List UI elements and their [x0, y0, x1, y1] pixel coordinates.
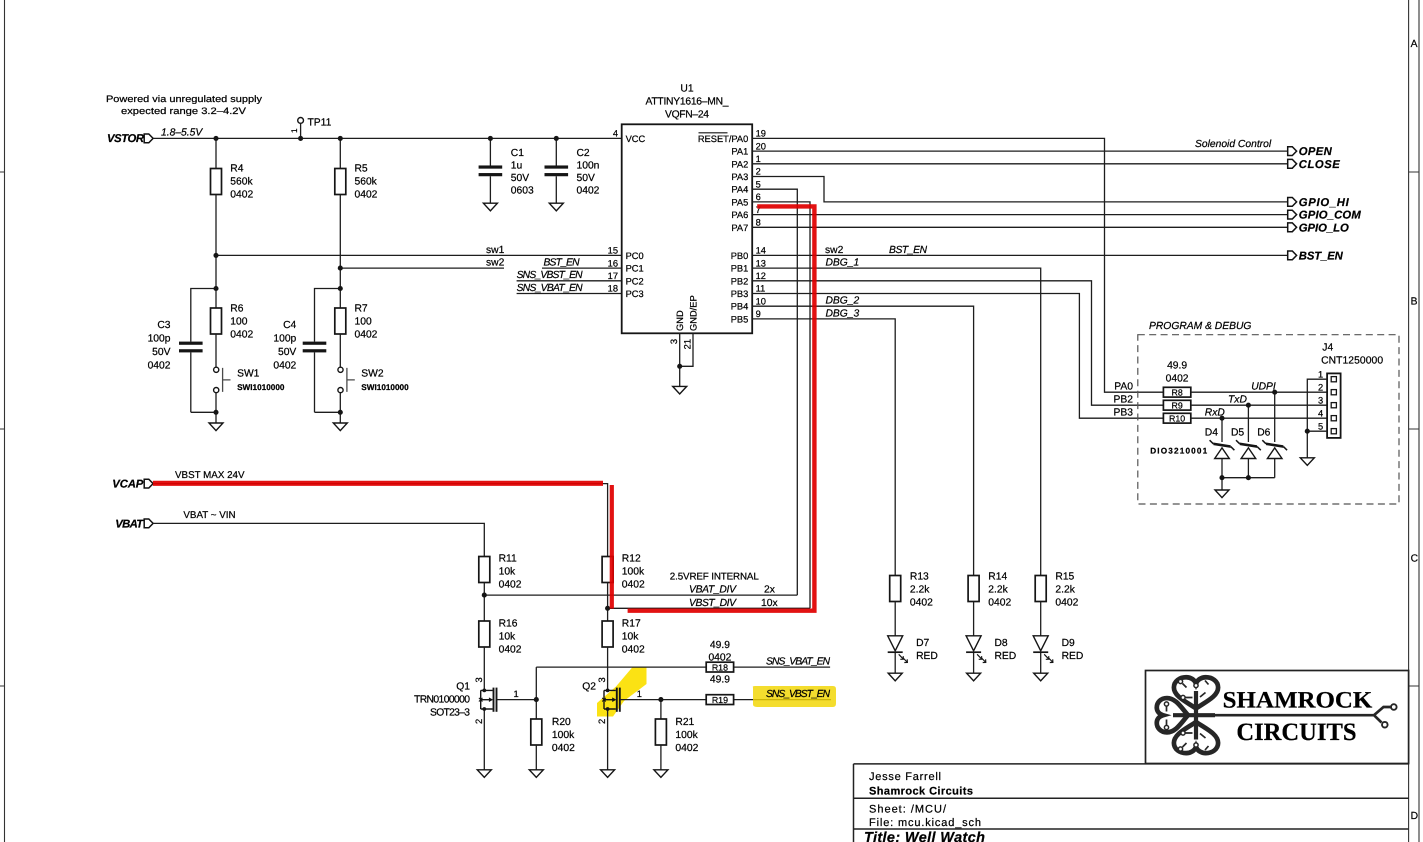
resistor R20	[531, 717, 575, 770]
svg-text:1u: 1u	[511, 161, 523, 172]
resistor R5	[335, 164, 378, 201]
ground under C2	[549, 203, 563, 211]
ground under U1	[673, 386, 687, 394]
svg-text:4: 4	[613, 129, 618, 139]
MCU U1 ground pins 3 and 21	[669, 295, 699, 386]
test point TP11	[290, 118, 332, 139]
resistor R11	[479, 554, 522, 591]
logo trace line with via pads	[1215, 704, 1397, 727]
svg-text:0603: 0603	[511, 186, 534, 197]
svg-text:ATTINY1616–MN_: ATTINY1616–MN_	[646, 97, 729, 108]
svg-text:VCC: VCC	[626, 134, 646, 144]
hierarchical port GPIO_HI	[1288, 197, 1350, 209]
svg-text:R13: R13	[910, 572, 929, 583]
svg-text:PA3: PA3	[731, 172, 748, 182]
svg-text:PB4: PB4	[731, 302, 749, 312]
svg-text:BST_EN: BST_EN	[1299, 250, 1344, 262]
svg-text:DBG_2: DBG_2	[826, 296, 860, 307]
svg-text:PB2: PB2	[1114, 395, 1134, 406]
svg-text:UDPI: UDPI	[1251, 382, 1276, 393]
svg-text:SNS_VBST_EN: SNS_VBST_EN	[517, 270, 584, 281]
svg-text:0402: 0402	[148, 361, 171, 372]
capacitor C3	[148, 289, 216, 413]
wire UPDI net with label	[1191, 382, 1327, 393]
svg-text:0402: 0402	[910, 598, 933, 609]
svg-text:VCAP: VCAP	[112, 479, 143, 491]
ground under SW2	[333, 423, 347, 431]
svg-text:VBST_DIV: VBST_DIV	[689, 598, 737, 609]
ground under Q2	[601, 770, 615, 778]
svg-text:D7: D7	[916, 638, 929, 649]
wire VBST_DIV vertical from pin 6	[752, 202, 810, 608]
svg-text:100k: 100k	[552, 730, 575, 741]
svg-text:560k: 560k	[355, 177, 378, 188]
svg-text:CIRCUITS: CIRCUITS	[1236, 719, 1356, 746]
ground under Q1	[477, 770, 491, 778]
svg-text:R18: R18	[712, 663, 728, 673]
resistor R7	[335, 304, 378, 341]
wire R12 to R17 through VBST_DIV node	[607, 583, 609, 622]
TVS diode D4	[1205, 428, 1235, 459]
wire net sw1	[216, 245, 622, 256]
svg-text:VSTOR: VSTOR	[107, 133, 145, 145]
svg-text:BST_EN: BST_EN	[544, 258, 581, 269]
svg-text:2: 2	[756, 167, 761, 177]
svg-text:10k: 10k	[622, 632, 639, 643]
hierarchical port GPIO_LO	[1288, 222, 1349, 234]
svg-text:PB5: PB5	[731, 314, 749, 324]
svg-text:13: 13	[756, 258, 766, 268]
wire R11 to R16 through VBAT_DIV node	[483, 583, 485, 622]
svg-text:SHAMROCK: SHAMROCK	[1223, 688, 1373, 714]
svg-text:10x: 10x	[761, 598, 778, 609]
wire junction dots	[213, 136, 1309, 702]
MCU U1 right-side pin names and numbers	[698, 129, 766, 325]
wire GPIO_LO from pin 8	[752, 226, 1287, 228]
switch SW2	[338, 334, 409, 423]
svg-text:2: 2	[1318, 382, 1323, 392]
wire R4 column	[215, 138, 217, 308]
svg-text:8: 8	[756, 218, 761, 228]
svg-text:1: 1	[756, 154, 761, 164]
svg-text:R5: R5	[355, 164, 368, 175]
hierarchical port VSTOR	[107, 133, 153, 145]
svg-text:VBST MAX 24V: VBST MAX 24V	[175, 470, 245, 481]
svg-text:SNS_VBST_EN: SNS_VBST_EN	[766, 689, 831, 700]
svg-text:GPIO_HI: GPIO_HI	[1299, 197, 1350, 209]
svg-text:3: 3	[1318, 395, 1323, 405]
wire R5 column	[339, 138, 341, 308]
wire diode ground rail	[1222, 478, 1275, 490]
hierarchical port VCAP	[112, 479, 153, 491]
svg-text:PB1: PB1	[731, 264, 749, 274]
resistor R8	[1163, 361, 1190, 398]
svg-text:2.2k: 2.2k	[988, 585, 1008, 596]
svg-text:File: mcu.kicad_sch: File: mcu.kicad_sch	[869, 817, 981, 829]
svg-text:Q2: Q2	[582, 682, 596, 693]
svg-text:0402: 0402	[499, 645, 522, 656]
svg-text:12: 12	[756, 271, 766, 281]
svg-text:49.9: 49.9	[710, 640, 730, 651]
wire GPIO_COM from pin 7	[752, 214, 1287, 216]
connector J4	[1318, 343, 1383, 438]
wire net BST_EN to PC1	[542, 258, 622, 269]
svg-text:D4: D4	[1205, 428, 1218, 439]
svg-text:0402: 0402	[230, 330, 253, 341]
svg-text:2x: 2x	[764, 585, 776, 596]
svg-text:100p: 100p	[273, 334, 296, 345]
svg-text:0402: 0402	[1055, 598, 1078, 609]
svg-text:49.9: 49.9	[710, 675, 730, 686]
wire D4 column from RxD	[1221, 418, 1223, 478]
svg-text:100n: 100n	[577, 161, 600, 172]
switch SW1	[214, 334, 285, 423]
svg-text:R21: R21	[675, 717, 694, 728]
wire DBG_1 from pin 13	[752, 258, 1040, 576]
wire SNS_VBST_EN row	[734, 699, 831, 701]
svg-text:PA7: PA7	[731, 223, 748, 233]
svg-text:0402: 0402	[622, 645, 645, 656]
svg-text:PC0: PC0	[626, 251, 644, 261]
TVS diode D6	[1257, 428, 1287, 459]
svg-text:10k: 10k	[499, 567, 516, 578]
svg-text:0402: 0402	[499, 580, 522, 591]
svg-text:PB0: PB0	[731, 251, 749, 261]
svg-text:3: 3	[597, 677, 607, 682]
svg-text:DBG_1: DBG_1	[826, 258, 860, 269]
svg-text:0402: 0402	[1166, 374, 1189, 385]
red annotation VCAP horizontal	[153, 481, 603, 486]
svg-text:Title: Well Watch: Title: Well Watch	[864, 830, 985, 842]
resistor R13	[890, 572, 933, 609]
dashed box PROGRAM & DEBUG	[1138, 321, 1399, 504]
svg-text:0402: 0402	[577, 186, 600, 197]
svg-text:2: 2	[597, 719, 607, 724]
svg-text:R16: R16	[499, 619, 518, 630]
svg-text:sw1: sw1	[486, 245, 505, 256]
svg-text:sw2: sw2	[825, 245, 844, 256]
svg-text:D: D	[1411, 811, 1418, 822]
svg-text:49.9: 49.9	[1167, 361, 1187, 372]
svg-text:R4: R4	[230, 164, 243, 175]
svg-text:R20: R20	[552, 717, 571, 728]
svg-text:17: 17	[608, 271, 618, 281]
svg-text:21: 21	[682, 339, 692, 349]
svg-text:C: C	[1411, 554, 1419, 565]
svg-text:GND/EP: GND/EP	[689, 295, 699, 331]
svg-text:CNT1250000: CNT1250000	[1321, 356, 1383, 367]
svg-text:2.5VREF INTERNAL: 2.5VREF INTERNAL	[670, 572, 760, 583]
red annotation VBST_DIV to PA5 path	[628, 206, 815, 610]
svg-text:0402: 0402	[273, 361, 296, 372]
svg-text:expected range 3.2–4.2V: expected range 3.2–4.2V	[121, 105, 247, 116]
svg-text:PA4: PA4	[731, 185, 748, 195]
svg-text:SNS_VBAT_EN: SNS_VBAT_EN	[766, 657, 831, 668]
svg-text:Shamrock Circuits: Shamrock Circuits	[869, 785, 973, 797]
svg-text:R19: R19	[712, 695, 728, 705]
svg-text:Solenoid Control: Solenoid Control	[1195, 139, 1272, 150]
svg-text:D5: D5	[1231, 428, 1244, 439]
yellow highlight over Q2	[597, 667, 647, 717]
svg-text:R9: R9	[1171, 401, 1182, 411]
svg-text:C3: C3	[157, 320, 170, 331]
title block lines	[854, 764, 1409, 842]
svg-text:VBAT: VBAT	[115, 518, 144, 530]
svg-text:R7: R7	[355, 304, 368, 315]
wire PA0/UPDI from pin 19 down to debug	[752, 138, 1163, 392]
ground under D8	[967, 673, 981, 681]
svg-text:1: 1	[1318, 369, 1323, 379]
wire net SNS_VBAT_EN to PC3	[517, 283, 622, 294]
svg-text:9: 9	[756, 309, 761, 319]
svg-text:PB2: PB2	[731, 276, 749, 286]
wire OPEN from pin 20	[752, 150, 1287, 152]
wire CLOSE from pin 1	[752, 163, 1287, 165]
ground under R20	[529, 770, 543, 778]
ground under J4	[1300, 458, 1314, 466]
svg-text:5: 5	[1318, 421, 1323, 431]
red annotation vertical beside R12	[610, 485, 614, 609]
svg-text:R15: R15	[1055, 572, 1074, 583]
wire Q2 gate node	[620, 700, 706, 719]
svg-text:2: 2	[474, 719, 484, 724]
svg-text:BST_EN: BST_EN	[889, 245, 928, 256]
resistor R4	[211, 164, 254, 201]
wire TxD net with label	[1191, 395, 1327, 406]
svg-text:0402: 0402	[708, 653, 731, 664]
hierarchical port BST_EN	[1288, 250, 1344, 262]
svg-text:PROGRAM & DEBUG: PROGRAM & DEBUG	[1149, 321, 1251, 332]
ground under D9	[1034, 673, 1048, 681]
svg-text:PA0: PA0	[1114, 382, 1133, 393]
hierarchical port VBAT	[115, 518, 153, 530]
wire PB3 from pin 11 to debug	[752, 294, 1163, 419]
yellow highlight over SNS_VBST_EN label	[753, 686, 836, 707]
svg-text:2.2k: 2.2k	[1055, 585, 1075, 596]
svg-text:PC2: PC2	[626, 276, 644, 286]
svg-text:1: 1	[290, 128, 299, 133]
svg-text:1: 1	[514, 689, 519, 699]
svg-text:19: 19	[756, 129, 766, 139]
svg-text:R6: R6	[230, 304, 243, 315]
svg-text:16: 16	[608, 258, 618, 268]
logo box border	[1146, 671, 1409, 764]
svg-text:10k: 10k	[499, 632, 516, 643]
svg-text:PB3: PB3	[731, 289, 749, 299]
wire Q1 gate node	[497, 667, 537, 719]
svg-text:4: 4	[1318, 408, 1323, 418]
hierarchical port CLOSE	[1288, 159, 1341, 171]
svg-text:1.8–5.5V: 1.8–5.5V	[161, 127, 203, 138]
wire net VBAT_DIV	[484, 585, 797, 596]
resistor R6	[211, 304, 254, 341]
wire J4 pin1 to pin5 ground	[1307, 379, 1327, 458]
svg-text:GPIO_COM: GPIO_COM	[1299, 210, 1362, 222]
TVS diode D5	[1231, 428, 1261, 459]
ground under SW1	[209, 423, 223, 431]
svg-text:R12: R12	[622, 554, 641, 565]
resistor R18	[706, 640, 733, 673]
svg-text:50V: 50V	[152, 347, 170, 358]
svg-text:6: 6	[756, 192, 761, 202]
capacitor C1	[479, 138, 534, 203]
svg-text:RED: RED	[916, 651, 938, 662]
wire net SNS_VBST_EN to PC2	[517, 270, 622, 281]
svg-text:PA1: PA1	[731, 147, 748, 157]
svg-text:VBAT_DIV: VBAT_DIV	[689, 585, 737, 596]
svg-text:14: 14	[756, 246, 766, 256]
LED D8	[966, 602, 1016, 674]
svg-text:50V: 50V	[278, 347, 296, 358]
svg-text:SW1: SW1	[237, 369, 260, 380]
svg-text:sw2: sw2	[486, 258, 505, 269]
wire PB2 from pin 12 to debug	[752, 281, 1163, 405]
svg-text:CLOSE: CLOSE	[1299, 159, 1340, 171]
svg-text:0402: 0402	[355, 190, 378, 201]
wire GPIO_HI from pin 2	[752, 177, 1287, 202]
svg-text:D6: D6	[1257, 428, 1270, 439]
svg-text:TxD: TxD	[1228, 395, 1247, 406]
svg-text:D9: D9	[1062, 638, 1075, 649]
svg-text:D8: D8	[995, 638, 1008, 649]
svg-text:PB3: PB3	[1114, 408, 1134, 419]
svg-text:VBAT ~ VIN: VBAT ~ VIN	[183, 510, 235, 521]
svg-text:PC1: PC1	[626, 264, 644, 274]
wire net sw2 stub	[340, 258, 504, 269]
ground under R21	[654, 770, 668, 778]
svg-text:B: B	[1411, 297, 1418, 308]
capacitor C2	[545, 138, 600, 203]
wire net VBST_DIV	[608, 598, 810, 609]
resistor R12	[602, 554, 645, 591]
wire D6 column from UPDI	[1274, 392, 1276, 478]
svg-text:Sheet: /MCU/: Sheet: /MCU/	[869, 804, 947, 816]
svg-text:RED: RED	[995, 651, 1017, 662]
svg-text:Powered via unregulated supply: Powered via unregulated supply	[106, 93, 262, 104]
svg-text:11: 11	[756, 284, 766, 294]
svg-text:SW2: SW2	[361, 369, 384, 380]
LED D7	[888, 602, 938, 674]
resistor R9	[1163, 400, 1190, 410]
LED D9	[1033, 602, 1083, 674]
svg-text:0402: 0402	[552, 743, 575, 754]
svg-text:C4: C4	[283, 320, 296, 331]
svg-text:20: 20	[756, 141, 766, 151]
wire BST_EN from pin 14	[752, 245, 1287, 256]
svg-text:560k: 560k	[230, 177, 253, 188]
MCU U1 left-side pin names and numbers	[608, 129, 646, 299]
svg-text:DIO3210001: DIO3210001	[1150, 447, 1207, 456]
MCU U1 ATTINY1616 body	[622, 84, 753, 334]
svg-text:3: 3	[669, 339, 679, 344]
svg-text:C2: C2	[577, 148, 590, 159]
resistor R17	[602, 619, 645, 656]
svg-text:C1: C1	[511, 148, 524, 159]
svg-text:0402: 0402	[988, 598, 1011, 609]
svg-text:R14: R14	[988, 572, 1007, 583]
wire VSTOR rail	[153, 137, 622, 139]
svg-text:100: 100	[230, 317, 247, 328]
transistor Q2	[582, 647, 642, 770]
ground under diode rail	[1215, 490, 1229, 498]
wire VCAP to R12	[153, 484, 608, 557]
svg-text:GPIO_LO: GPIO_LO	[1299, 222, 1349, 234]
note: powered via unregulated supply	[106, 93, 262, 116]
wire VBAT to R11	[153, 523, 484, 556]
svg-text:50V: 50V	[511, 173, 529, 184]
svg-text:RED: RED	[1062, 651, 1084, 662]
svg-text:U1: U1	[680, 84, 693, 95]
ground under C1	[483, 203, 497, 211]
svg-text:Q1: Q1	[456, 682, 470, 693]
resistor R10	[1163, 413, 1190, 423]
resistor R21	[655, 717, 698, 770]
svg-text:SNS_VBAT_EN: SNS_VBAT_EN	[517, 283, 584, 294]
svg-text:R17: R17	[622, 619, 641, 630]
svg-text:R11: R11	[499, 554, 517, 565]
resistor R15	[1035, 572, 1078, 609]
wire DBG_2 from pin 10	[752, 296, 973, 576]
wire RxD net with label	[1191, 408, 1327, 419]
svg-text:A: A	[1411, 39, 1418, 50]
svg-text:0402: 0402	[230, 190, 253, 201]
svg-text:R8: R8	[1171, 388, 1182, 398]
svg-text:Jesse Farrell: Jesse Farrell	[869, 771, 941, 783]
svg-text:OPEN: OPEN	[1299, 146, 1333, 158]
svg-text:PA6: PA6	[731, 210, 748, 220]
svg-text:100k: 100k	[675, 730, 698, 741]
svg-text:R10: R10	[1169, 414, 1185, 424]
svg-text:PA5: PA5	[731, 197, 748, 207]
svg-text:RESET/PA0: RESET/PA0	[698, 134, 748, 144]
svg-text:TP11: TP11	[308, 118, 332, 129]
sheet frame left border line	[0, 0, 5, 842]
svg-text:SWI1010000: SWI1010000	[361, 383, 409, 392]
resistor R16	[479, 619, 522, 656]
svg-text:0402: 0402	[622, 580, 645, 591]
svg-text:50V: 50V	[577, 173, 595, 184]
logo shamrock symbol	[1157, 677, 1218, 753]
svg-text:PA2: PA2	[731, 159, 748, 169]
svg-text:1: 1	[637, 689, 642, 699]
svg-text:100k: 100k	[622, 567, 645, 578]
hierarchical port GPIO_COM	[1288, 210, 1362, 222]
svg-text:PC3: PC3	[626, 289, 644, 299]
svg-text:GND: GND	[675, 310, 685, 331]
wire SNS_VBAT_EN row	[536, 666, 830, 668]
svg-text:3: 3	[474, 677, 484, 682]
svg-text:100p: 100p	[148, 334, 171, 345]
resistor R14	[968, 572, 1011, 609]
svg-text:SOT23–3: SOT23–3	[430, 708, 470, 719]
svg-text:SWI1010000: SWI1010000	[237, 383, 285, 392]
sheet frame right border lines with row ticks	[1409, 0, 1419, 842]
svg-text:VQFN–24: VQFN–24	[665, 110, 709, 121]
svg-text:DBG_3: DBG_3	[826, 308, 860, 319]
svg-text:0402: 0402	[675, 743, 698, 754]
svg-text:0402: 0402	[355, 330, 378, 341]
svg-text:18: 18	[608, 284, 618, 294]
svg-text:J4: J4	[1322, 343, 1333, 354]
svg-text:100: 100	[355, 317, 372, 328]
svg-text:10: 10	[756, 296, 766, 306]
transistor Q1	[414, 647, 519, 770]
wire VBAT_DIV vertical from pin 5	[752, 189, 797, 595]
wire D5 column from TxD	[1247, 405, 1249, 478]
resistor R19	[706, 675, 733, 706]
ground under D7	[888, 673, 902, 681]
hierarchical port OPEN	[1288, 146, 1333, 158]
